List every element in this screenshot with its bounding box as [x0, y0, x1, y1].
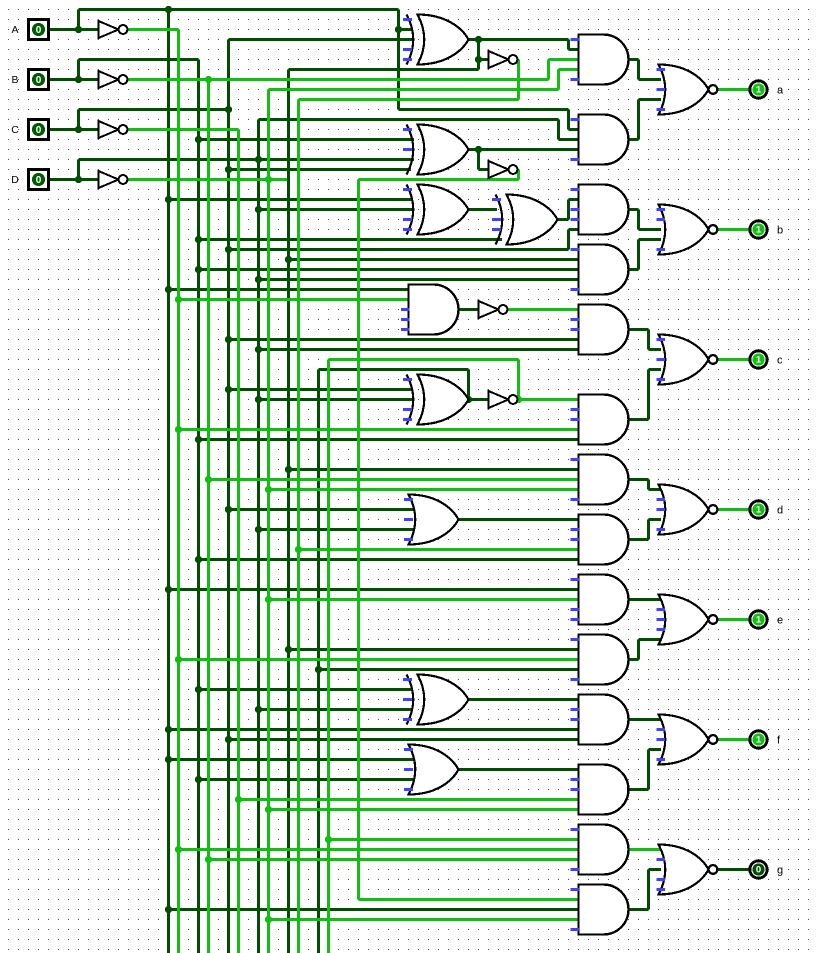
wire XOR2 out to G2	[469, 148, 579, 151]
wire bus A x168	[167, 10, 170, 953]
wire NOT-A to Gc2	[179, 428, 579, 431]
junction B tap	[195, 266, 202, 273]
wire Gb1 drop	[637, 210, 640, 230]
junction C tap	[225, 506, 232, 513]
input pin C	[29, 120, 49, 140]
wire XOR1 out	[469, 38, 569, 41]
wire bus NOT-XOR2 x358	[357, 180, 360, 900]
svg-text:1: 1	[756, 735, 762, 746]
svg-text:a: a	[777, 84, 784, 96]
inverter NOT6	[489, 161, 518, 178]
junction NOT-D tap	[265, 176, 272, 183]
wire D to XOR3	[259, 208, 413, 211]
wire Gb2 to NORb	[639, 238, 662, 241]
wire Ge1 to NORe	[629, 598, 662, 601]
wire Gf2 to NORf	[649, 748, 662, 751]
wire A net riser x568	[567, 110, 570, 130]
wire D row to XOR2	[79, 158, 415, 161]
wire A drop at x398	[397, 10, 400, 110]
wire Ge2 riser	[637, 640, 640, 660]
wire bus XOR5-out x318	[317, 370, 320, 953]
svg-text:1: 1	[756, 505, 762, 516]
and gate Gc1 (seg c)	[579, 305, 629, 355]
wire G1 out drop	[637, 60, 640, 80]
xor gate XOR5 (C^D)	[407, 375, 469, 425]
junction D tap	[255, 346, 262, 353]
junction A column tap	[165, 6, 172, 13]
and gate Gg2 (seg g)	[579, 885, 629, 935]
wire B pin to inverter	[49, 78, 99, 81]
wire C to Gf1	[229, 738, 579, 741]
svg-text:0: 0	[36, 175, 42, 186]
wire NOT8 net row 359	[329, 358, 519, 361]
junction NOT-XOR1 tap	[295, 546, 302, 553]
junction B tap	[195, 136, 202, 143]
wire bus NOT-D x268	[267, 90, 270, 953]
wire XOR4 out	[558, 218, 569, 221]
wire NOT-D to Gg2	[269, 918, 579, 921]
junction D tap	[255, 396, 262, 403]
wire C up-leg	[77, 110, 80, 130]
wire D pin to inverter	[49, 178, 99, 181]
svg-text:b: b	[777, 224, 783, 236]
wire Gd1 to NORd	[649, 488, 662, 491]
wire NOT-XOR2 to Gg2	[359, 898, 579, 901]
wire NOT6 out stub	[518, 168, 519, 171]
svg-text:d: d	[777, 504, 783, 516]
junction C tap	[225, 736, 232, 743]
wire NOT-A to Ge2	[179, 658, 579, 661]
inverter NOT3 (C)	[99, 121, 128, 138]
and gate Gd2 (seg d)	[579, 515, 629, 565]
wire to NOT6	[479, 168, 489, 171]
junction C tap	[225, 166, 232, 173]
wire Gb1 to NORb	[639, 228, 662, 231]
svg-text:c: c	[777, 354, 783, 366]
svg-text:1: 1	[756, 85, 762, 96]
wire Gc2 to NORc	[649, 368, 662, 371]
wire XOR1 out row 69	[289, 68, 479, 71]
wire C row 249	[229, 248, 569, 251]
wire Gd1 drop	[647, 480, 650, 490]
and gate Gc2 (seg c)	[579, 395, 629, 445]
junction A tap	[165, 906, 172, 913]
wire NORc to pin c	[719, 358, 750, 361]
wire A to XOR1 input	[399, 28, 413, 31]
wire B to Gc2	[199, 438, 579, 441]
wire bus XOR1-out x288	[287, 70, 290, 953]
wire C riser x568	[567, 230, 570, 250]
junction C tap	[225, 106, 232, 113]
wire Gc1 drop	[647, 330, 650, 350]
and gate Gf2 (seg f)	[579, 765, 629, 815]
junction D column tap	[255, 156, 262, 163]
svg-text:A: A	[11, 24, 18, 36]
floating input stubs AND gates	[571, 40, 580, 930]
and gate G2 (seg a)	[579, 115, 629, 165]
wire A to Gf1	[169, 728, 579, 731]
junction C tap	[225, 336, 232, 343]
svg-text:1: 1	[756, 615, 762, 626]
wire NOT-B out row 79	[128, 78, 549, 81]
wire D to Gc1	[259, 348, 579, 351]
junction B tap	[195, 556, 202, 563]
and gate Gc0 (A.A')	[409, 285, 459, 335]
wire NOT-D to G1	[559, 68, 579, 71]
wire A top run	[79, 8, 399, 11]
wire NOT-A to Gc0	[179, 298, 410, 301]
junction D tap	[255, 526, 262, 533]
wire Gg1 to NORg	[629, 848, 662, 851]
wire NOT-B to G1	[549, 58, 579, 61]
wire NOT-B riser x548	[547, 60, 550, 80]
or gate ORf (A+B)	[409, 745, 459, 795]
wire Gd1 out	[629, 478, 649, 481]
wire NOT5 out row 99	[299, 98, 519, 101]
junction B tap	[195, 686, 202, 693]
wire A net to G2 input	[569, 128, 579, 131]
junction C tap	[225, 246, 232, 253]
wire C to XOR5	[229, 388, 413, 391]
junction NOT-D tap	[265, 806, 272, 813]
wire Gg2 to NORg	[649, 868, 662, 871]
svg-text:0: 0	[756, 865, 761, 876]
junction B tap	[195, 436, 202, 443]
wire XOR1 out drop	[567, 40, 570, 50]
inverter NOT5	[489, 51, 518, 68]
wire NOT8 out to Gc2	[518, 398, 579, 401]
wire NOT8 net riser	[517, 360, 520, 400]
wire B up-leg	[77, 60, 80, 80]
and gate Gg1 (seg g)	[579, 825, 629, 875]
output pin b	[750, 221, 767, 238]
floating input stubs NOR gates	[657, 70, 666, 890]
junction A branch	[75, 26, 82, 33]
junction A tap	[165, 586, 172, 593]
junction NOT8 out	[515, 396, 522, 403]
or gate ORd (C+D)	[409, 495, 459, 545]
junction NOT-B top tap	[205, 76, 212, 83]
wire G1 to NOR1	[639, 78, 662, 81]
wire NOT-XOR5 to Gg1	[329, 838, 579, 841]
wire XOR4 to Gb1	[569, 198, 579, 201]
floating input stubs XOR gates	[401, 20, 501, 790]
and gate Ge2 (seg e)	[579, 635, 629, 685]
wire XOR3 out to XOR4	[469, 208, 498, 211]
junction XOR1-out tap	[285, 256, 292, 263]
wire XOR5 out row 369	[319, 368, 469, 371]
junction XOR1-out tap	[285, 466, 292, 473]
wire XOR4 riser	[567, 200, 570, 220]
junction NOT5 input	[475, 56, 482, 63]
wire C to column	[79, 108, 229, 111]
wire A to Ge1	[169, 588, 579, 591]
wire Gb2 riser	[637, 240, 640, 270]
wire Gd2 to NORd	[649, 518, 662, 521]
wire NOT-C to Gf2	[239, 798, 579, 801]
wire B to ORf	[199, 778, 415, 781]
wire D to G2	[559, 138, 579, 141]
junction A tap	[165, 196, 172, 203]
wire NOT-A to Gg1	[179, 848, 579, 851]
wire G2 to NOR1	[639, 98, 662, 101]
wire Gc2 riser	[647, 370, 650, 420]
input pin A	[29, 20, 49, 40]
and gate Gb2 (seg b)	[579, 245, 629, 295]
wire B to Gd2	[199, 558, 579, 561]
junction NOT-C tap	[235, 796, 242, 803]
wire NOT-D to Gf2	[269, 808, 579, 811]
wire C pin to inverter	[49, 128, 99, 131]
junction A to XOR1	[395, 26, 402, 33]
inverter NOT2 (B)	[99, 71, 128, 88]
wire bus C x228	[227, 40, 230, 953]
junction NOT-D tap	[265, 486, 272, 493]
wire Gb1 out	[629, 208, 639, 211]
wire XOR2 out drop	[477, 150, 480, 170]
wire C to Gb1	[569, 228, 579, 231]
xor gate XOR4	[496, 195, 558, 245]
junction D tap	[255, 706, 262, 713]
wire A up-leg	[77, 10, 80, 30]
nor gate NORe (seg e)	[659, 595, 718, 645]
nor gate NOR1 (seg a)	[659, 65, 718, 115]
wire XOR5 out to NOT8	[469, 398, 489, 401]
wire D row 119	[259, 118, 559, 121]
svg-text:0: 0	[36, 125, 42, 136]
wire NORe to pin e	[719, 618, 750, 621]
wire A net row 109	[399, 108, 569, 111]
wire XOR1 out to G1	[569, 48, 579, 51]
xor gate XOR2 (B^C^D)	[407, 125, 469, 175]
junction D tap	[255, 276, 262, 283]
output pin c	[750, 351, 767, 368]
and gate G1 (seg a)	[579, 35, 629, 85]
wire NOR1 to pin a	[719, 88, 750, 91]
wire Gc2 out	[629, 418, 649, 421]
nor gate NORc (seg c)	[659, 335, 718, 385]
wire Gd2 out	[629, 538, 649, 541]
svg-text:g: g	[777, 864, 783, 876]
wire Ge2 out	[629, 658, 639, 661]
wire B to XOR2	[199, 138, 415, 141]
wire G2 out riser	[637, 100, 640, 140]
wire G1 out	[629, 58, 639, 61]
wire B to column	[79, 58, 199, 61]
output pin g	[750, 861, 767, 878]
and gate Gd1 (seg d)	[579, 455, 629, 505]
junction A tap	[165, 756, 172, 763]
junction D branch	[75, 176, 82, 183]
input pin D	[29, 170, 49, 190]
wire NORg to pin g	[719, 868, 750, 871]
wire bus NOT-C x238	[237, 130, 240, 953]
junction NOT-A tap	[175, 656, 182, 663]
wire Gf2 riser	[647, 750, 650, 790]
wire NOT6 out drop	[517, 170, 520, 180]
wire NOT-A out	[128, 28, 179, 31]
wire D to XOR6	[259, 708, 413, 711]
junction C branch	[75, 126, 82, 133]
junction A tap	[165, 286, 172, 293]
junction XOR5-out tap	[315, 666, 322, 673]
junction NOT-D tap	[265, 916, 272, 923]
wire A to Gc0	[169, 288, 410, 291]
wire A to Gg2	[169, 908, 579, 911]
wire D up-leg	[77, 160, 80, 180]
nor gate NORb (seg b)	[659, 205, 718, 255]
svg-text:0: 0	[36, 25, 42, 36]
wire Gd2 riser	[647, 520, 650, 540]
inverter NOT8	[489, 391, 518, 408]
and gate Gf1 (seg f)	[579, 695, 629, 745]
wire XOR1 out down-leg	[477, 40, 480, 70]
nor gate NORg (seg g)	[659, 845, 718, 895]
wire NOT6 out row 179	[359, 178, 519, 181]
wire NOT-B to Gd1	[209, 478, 579, 481]
wire NOT-D out row 179	[128, 178, 288, 181]
wire bus D x258	[257, 120, 260, 953]
svg-text:C: C	[11, 124, 19, 136]
wire bus NOT-XOR1 x298	[297, 100, 300, 953]
svg-text:1: 1	[756, 225, 762, 236]
svg-text:D: D	[11, 174, 19, 186]
wire NOT-C out	[128, 128, 239, 131]
junction A tap	[165, 726, 172, 733]
wire Gc1 to NORc	[649, 348, 662, 351]
and gate Gb1 (seg b)	[579, 185, 629, 235]
wire XOR5 out up-leg	[467, 370, 470, 400]
junction D tap	[255, 206, 262, 213]
wire bus B x198	[197, 60, 200, 953]
junction B branch	[75, 76, 82, 83]
input pin B	[29, 70, 49, 90]
wire D to ORd	[259, 528, 415, 531]
junction NOT-B tap	[205, 856, 212, 863]
wire A pin to inverter	[49, 28, 99, 31]
wire C to Gc1	[229, 338, 579, 341]
junction C tap	[225, 386, 232, 393]
inverter NOT7	[479, 301, 508, 318]
junction NOT-B tap	[205, 476, 212, 483]
junction XOR2 out	[475, 146, 482, 153]
wire Gg2 riser	[647, 870, 650, 910]
svg-text:B: B	[11, 74, 18, 86]
junction B tap	[195, 776, 202, 783]
junction XOR5 out	[465, 396, 472, 403]
wire bus NOT-XOR5 x328	[327, 360, 330, 953]
svg-text:e: e	[777, 614, 783, 626]
wire A to XOR3	[169, 198, 413, 201]
wire ORf out to Gf2	[459, 768, 579, 771]
wire Gf2 out	[629, 788, 649, 791]
and gate Ge1 (seg e)	[579, 575, 629, 625]
wire NORb to pin b	[719, 228, 750, 231]
wire XOR1-out to Ge2	[289, 648, 579, 651]
wire NOT-D to Ge1	[269, 598, 579, 601]
xor gate XOR3 (A^D)	[407, 185, 469, 235]
svg-text:0: 0	[36, 75, 42, 86]
wire NOT-D row 89	[269, 88, 559, 91]
wire NORf to pin f	[719, 738, 750, 741]
wire C to XOR2	[229, 168, 412, 171]
wire C to ORd	[229, 508, 415, 511]
wire B to XOR6	[199, 688, 413, 691]
wire G2 out	[629, 138, 639, 141]
junction NOT-D tap	[265, 596, 272, 603]
wire Ge2 to NORe	[639, 638, 662, 641]
wire NOT-D to Gd1	[269, 488, 579, 491]
wire D riser x558b	[557, 120, 560, 140]
inverter NOT1 (A)	[99, 21, 128, 38]
junction XOR1 out	[475, 36, 482, 43]
xor gate XOR1 (A^C)	[407, 15, 469, 65]
xor gate XOR6 (B^D)	[407, 675, 469, 725]
wire B to Gb2	[199, 268, 579, 271]
wire NOT5 out drop	[517, 60, 520, 100]
wire NOT7 out to Gc1	[508, 308, 579, 311]
wire Gc0 out to NOT7	[459, 308, 479, 311]
output pin a	[750, 81, 767, 98]
wire XOR5-out to Ge2	[319, 668, 579, 671]
junction NOT-XOR5 tap	[325, 836, 332, 843]
wire Gc1 out	[629, 328, 649, 331]
junction XOR1-out tap	[285, 646, 292, 653]
nor gate NORf (seg f)	[659, 715, 718, 765]
wire Gb2 out	[629, 268, 639, 271]
wire D to XOR5	[259, 398, 413, 401]
output pin e	[750, 611, 767, 628]
wire bus NOT-B x208	[207, 80, 210, 953]
inverter NOT4 (D)	[99, 171, 128, 188]
wire to NOT5	[479, 58, 489, 61]
wire D to Gb2	[259, 278, 579, 281]
junction NOT-A tap	[175, 296, 182, 303]
svg-text:1: 1	[756, 355, 762, 366]
nor gate NORd (seg d)	[659, 485, 718, 535]
wire Gg2 out	[629, 908, 649, 911]
wire NOT-D riser x558	[557, 70, 560, 90]
junction NOT-A tap	[175, 426, 182, 433]
wire XOR1-out to Gd1	[289, 468, 579, 471]
wire XOR1-out to Gb2	[289, 258, 579, 261]
wire Gf1 to NORf	[629, 718, 662, 721]
output pin f	[750, 731, 767, 748]
wire NOT5 out stub	[518, 58, 519, 61]
wire NOT-XOR1 to Gd2	[299, 548, 579, 551]
wire A to ORf	[169, 758, 415, 761]
wire C to XOR1 input	[229, 38, 413, 41]
junction NOT-A tap	[175, 846, 182, 853]
wire XOR6 out to Gf1	[469, 698, 579, 701]
wire ORd out to Gd2	[459, 518, 579, 521]
junction B tap	[195, 236, 202, 243]
output pin d	[750, 501, 767, 518]
wire B to XOR4	[199, 238, 503, 241]
wire bus NOT-A x178	[177, 30, 180, 953]
wire NOT-B to Gg1	[209, 858, 579, 861]
wire NORd to pin d	[719, 508, 750, 511]
